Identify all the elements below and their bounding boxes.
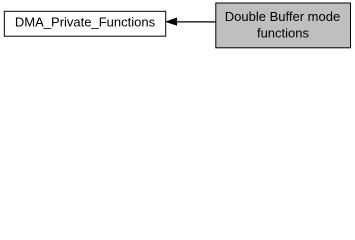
svg-text:functions: functions: [257, 25, 310, 40]
svg-text:Double Buffer mode: Double Buffer mode: [225, 9, 340, 24]
svg-text:DMA_Private_Functions: DMA_Private_Functions: [15, 14, 156, 29]
